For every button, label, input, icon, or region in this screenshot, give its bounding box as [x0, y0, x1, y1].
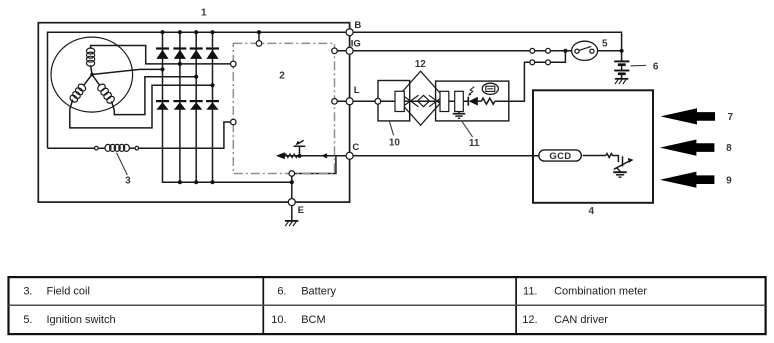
- svg-text:BCM: BCM: [301, 314, 325, 326]
- svg-text:E: E: [298, 205, 304, 216]
- svg-text:11: 11: [469, 138, 480, 149]
- svg-text:12: 12: [415, 59, 427, 70]
- svg-text:B: B: [354, 20, 361, 31]
- svg-text:7: 7: [728, 112, 734, 123]
- svg-text:10: 10: [389, 138, 401, 149]
- svg-text:6.: 6.: [277, 286, 286, 298]
- svg-text:5: 5: [602, 39, 608, 50]
- svg-text:Combination meter: Combination meter: [554, 286, 647, 298]
- svg-text:6: 6: [653, 62, 659, 73]
- svg-text:12.: 12.: [522, 314, 537, 326]
- svg-text:2: 2: [279, 70, 285, 81]
- svg-text:Ignition switch: Ignition switch: [47, 314, 116, 326]
- svg-text:1: 1: [201, 8, 207, 19]
- svg-text:L: L: [354, 85, 360, 96]
- svg-text:3.: 3.: [23, 286, 32, 298]
- svg-text:3: 3: [125, 176, 131, 187]
- svg-text:GCD: GCD: [549, 151, 571, 162]
- svg-text:5.: 5.: [23, 314, 32, 326]
- svg-text:CAN driver: CAN driver: [554, 314, 608, 326]
- svg-text:8: 8: [726, 143, 732, 154]
- svg-text:4: 4: [589, 206, 595, 217]
- svg-text:10.: 10.: [271, 314, 286, 326]
- svg-text:11.: 11.: [523, 286, 537, 298]
- svg-text:C: C: [352, 142, 359, 153]
- svg-text:9: 9: [726, 175, 732, 186]
- svg-text:Field coil: Field coil: [47, 286, 90, 298]
- svg-text:Battery: Battery: [301, 286, 336, 298]
- svg-text:IG: IG: [351, 38, 361, 49]
